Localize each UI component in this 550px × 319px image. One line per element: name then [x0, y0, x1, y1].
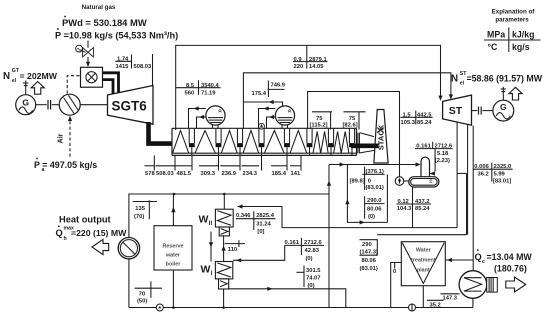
svg-text:Q: Q [56, 228, 63, 238]
svg-text:a: a [42, 167, 45, 173]
svg-text:14.05: 14.05 [309, 64, 324, 70]
svg-text:=13.04 MW: =13.04 MW [487, 252, 533, 262]
svg-text:Natural gas: Natural gas [82, 4, 116, 11]
svg-text:80.06: 80.06 [367, 207, 382, 213]
svg-text:135: 135 [135, 206, 145, 212]
svg-text:[89.8]: [89.8] [350, 179, 365, 185]
svg-text:236.9: 236.9 [222, 171, 237, 177]
svg-text:85.24: 85.24 [417, 120, 432, 126]
svg-text:N: N [3, 71, 10, 82]
svg-text:31.24: 31.24 [256, 221, 271, 227]
svg-text:110: 110 [228, 247, 237, 253]
svg-text:el: el [460, 80, 465, 86]
svg-text:c: c [482, 259, 485, 265]
svg-text:85.24: 85.24 [415, 206, 430, 212]
svg-text:175.4: 175.4 [252, 91, 267, 97]
svg-text:[115.2]: [115.2] [310, 123, 328, 129]
svg-text:(0): (0) [306, 256, 313, 262]
svg-text:[82.6]: [82.6] [343, 123, 358, 129]
svg-text:Explanation of: Explanation of [492, 9, 536, 16]
svg-text:36.2: 36.2 [478, 172, 489, 178]
svg-text:0: 0 [368, 179, 371, 185]
svg-text:5.99: 5.99 [494, 172, 506, 178]
svg-text:746.9: 746.9 [271, 82, 286, 88]
svg-text:MPa: MPa [487, 30, 505, 40]
svg-text:75: 75 [349, 116, 356, 122]
svg-text:80.06: 80.06 [362, 258, 377, 264]
svg-text:1415: 1415 [116, 64, 130, 70]
svg-text:kJ/kg: kJ/kg [512, 30, 535, 40]
svg-text:71.19: 71.19 [201, 90, 216, 96]
svg-text:P =10.98 kg/s (54,533 Nm³/h): P =10.98 kg/s (54,533 Nm³/h) [55, 31, 178, 41]
svg-text:290: 290 [362, 242, 372, 248]
svg-text:578: 578 [145, 171, 155, 177]
svg-text:G: G [22, 97, 29, 107]
svg-text:147.3: 147.3 [443, 296, 458, 302]
svg-text:5.18: 5.18 [437, 151, 449, 157]
svg-text:508.03: 508.03 [134, 64, 153, 70]
svg-text:75: 75 [316, 116, 323, 122]
svg-text:(50): (50) [137, 299, 147, 305]
svg-text:N: N [451, 74, 458, 85]
svg-text:G: G [500, 102, 507, 112]
svg-text:220: 220 [294, 64, 304, 70]
svg-text:[83.01]: [83.01] [493, 179, 511, 185]
svg-text:234.3: 234.3 [243, 171, 258, 177]
svg-text:Q: Q [475, 252, 482, 262]
svg-text:SGT6: SGT6 [112, 99, 148, 114]
svg-text:Air: Air [56, 133, 65, 143]
svg-text:35.2: 35.2 [430, 302, 441, 308]
svg-text:42.83: 42.83 [305, 248, 320, 254]
svg-text:(83.01): (83.01) [366, 185, 384, 191]
svg-text:309.3: 309.3 [201, 171, 216, 177]
svg-text:parameters: parameters [495, 17, 529, 24]
svg-text:74.07: 74.07 [306, 276, 321, 282]
svg-text:(180.76): (180.76) [494, 263, 527, 273]
svg-text:(2.23): (2.23) [435, 158, 450, 164]
svg-text:481.5: 481.5 [177, 171, 192, 177]
svg-text:(0): (0) [308, 283, 315, 289]
svg-text:ST: ST [449, 105, 463, 117]
svg-text:Reserve: Reserve [163, 243, 184, 249]
svg-text:Water: Water [416, 247, 432, 253]
svg-text:[0]: [0] [257, 229, 264, 235]
svg-text:508.03: 508.03 [156, 171, 175, 177]
svg-text:560: 560 [185, 90, 195, 96]
svg-text:= 202MW: = 202MW [20, 71, 58, 81]
svg-text:70: 70 [139, 291, 145, 297]
svg-text:(0): (0) [368, 214, 375, 220]
svg-text:(70): (70) [134, 214, 144, 220]
svg-text:h: h [64, 236, 67, 242]
svg-text:Heat output: Heat output [59, 215, 111, 225]
svg-text:PWd = 530.184 MW: PWd = 530.184 MW [62, 17, 147, 28]
svg-text:=220 (15) MW: =220 (15) MW [71, 228, 127, 238]
svg-text:0: 0 [393, 269, 396, 275]
svg-text:104.3: 104.3 [397, 206, 412, 212]
svg-text:II: II [209, 221, 213, 227]
svg-text:301.5: 301.5 [306, 268, 321, 274]
svg-text:treatment: treatment [411, 257, 436, 263]
svg-text:boiler: boiler [166, 261, 182, 267]
svg-text:(83.01): (83.01) [360, 266, 378, 272]
svg-text:°C: °C [488, 42, 499, 52]
svg-text:plant: plant [417, 267, 430, 273]
svg-text:141: 141 [291, 171, 301, 177]
svg-text:STACK: STACK [376, 124, 385, 150]
svg-text:185.4: 185.4 [272, 171, 287, 177]
svg-text:el: el [12, 78, 17, 84]
svg-text:kg/s: kg/s [512, 42, 530, 52]
svg-text:water: water [165, 252, 181, 258]
svg-text:105.3: 105.3 [401, 120, 416, 126]
svg-text:W: W [201, 264, 211, 276]
svg-text:W: W [199, 214, 209, 226]
svg-text:=58.86 (91.57) MW: =58.86 (91.57) MW [467, 74, 543, 84]
